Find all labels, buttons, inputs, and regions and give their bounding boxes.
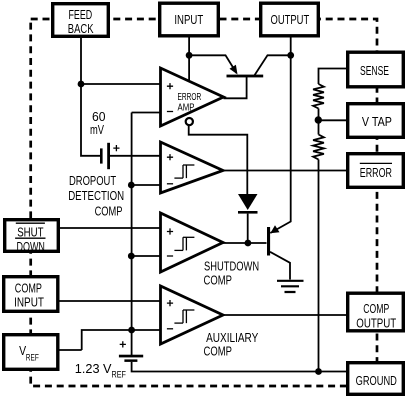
aux comp - marker (167, 328, 173, 330)
dropout comp hysteresis symbol (174, 177, 183, 179)
svg-text:COMP: COMP (15, 280, 42, 295)
wire: INPUT box down to error amp top (188, 38, 190, 82)
wire: aux comp - input from bus / vref (82, 330, 161, 350)
junction dot resistor bottom to ground rail (315, 368, 322, 375)
junction dot vref node (128, 327, 135, 334)
box SHUT DOWN (active low) (5, 220, 59, 254)
junction dot dropout - (128, 182, 135, 189)
resistor R2 (313, 135, 324, 160)
op-amp U1 error amp triangle (161, 68, 224, 126)
svg-text:AMP: AMP (178, 103, 195, 114)
wire: R2 bottom down to ground rail (318, 160, 320, 372)
battery B1 60mV plus bar (107, 143, 110, 169)
node A junction dot (feedback) (78, 81, 85, 88)
battery B1 60mV minus bar (100, 148, 103, 163)
wire: dropout comp output to ERROR box (223, 170, 346, 172)
error amp inverting output bubble (186, 118, 193, 125)
junction dot shutdown - (128, 253, 135, 260)
wire: bubble to diode (189, 125, 248, 194)
svg-text:GROUND: GROUND (356, 373, 397, 388)
Q2 collector wire to ground (270, 252, 290, 280)
box GROUND (348, 363, 404, 395)
wire: battery B1 to dropout comp + input (110, 155, 161, 157)
box ERROR (active low) (348, 154, 404, 188)
Q1 emitter wire from input node (189, 55, 236, 73)
comparator U3 shutdown comp triangle (161, 213, 224, 272)
shutdown comp hysteresis symbol (174, 249, 183, 251)
transistor Q1 PNP pass: base bar (227, 75, 264, 78)
wire: shutdown comp - input from bus (132, 255, 161, 257)
wire: R1 to tap node (318, 109, 320, 135)
diode D1 triangle (238, 194, 258, 210)
wire: error amp + input from node A (81, 83, 161, 85)
box FEED BACK (53, 4, 109, 37)
shutdown comp - marker (167, 255, 173, 257)
wire: aux comp output to COMP OUTPUT box (223, 314, 346, 316)
svg-text:OUTPUT: OUTPUT (356, 316, 396, 331)
transistor Q2 PNP: base bar (267, 227, 270, 256)
error amp + marker (167, 83, 173, 89)
svg-text:FEED: FEED (69, 7, 93, 22)
svg-text:SENSE: SENSE (360, 63, 389, 78)
svg-text:V TAP: V TAP (362, 114, 392, 129)
box SENSE (348, 52, 404, 87)
battery B2 1.23V minus bar (124, 359, 137, 362)
svg-text:SHUTDOWN: SHUTDOWN (204, 259, 259, 274)
svg-text:DOWN: DOWN (17, 239, 45, 254)
battery B2 plus marker (120, 341, 126, 347)
svg-text:REF: REF (112, 370, 127, 380)
Q1 collector wire to output node (254, 55, 291, 76)
svg-text:COMP: COMP (204, 343, 232, 358)
wire: FEED BACK down to node A (81, 38, 100, 156)
aux comp + marker (167, 300, 173, 306)
VREF bus vertical wire (131, 113, 133, 356)
svg-text:COMP: COMP (204, 273, 232, 288)
box COMP INPUT (4, 277, 58, 312)
wire: error amp - input from bus (132, 112, 161, 114)
svg-text:ERROR: ERROR (360, 165, 392, 180)
wire: VREF box right (59, 349, 82, 351)
svg-text:REF: REF (26, 352, 39, 362)
diode D1 cathode bar (238, 211, 258, 214)
box INPUT (160, 3, 219, 36)
box VREF (4, 335, 58, 370)
junction dot tap node (315, 116, 322, 123)
svg-text:DROPOUT: DROPOUT (69, 173, 116, 188)
svg-text:1.23 V: 1.23 V (75, 361, 112, 376)
svg-text:SHUT: SHUT (17, 225, 43, 240)
svg-text:COMP: COMP (363, 301, 389, 316)
error amp - marker (167, 111, 173, 113)
box COMP OUTPUT (348, 293, 404, 331)
wire: shutdown comp output to Q2 base (223, 242, 267, 244)
box V TAP (348, 104, 404, 138)
shutdown comp + marker (167, 228, 173, 234)
junction dot input node (186, 52, 193, 59)
junction dot diode/base (245, 240, 252, 247)
svg-text:ERROR: ERROR (178, 92, 202, 103)
Q2 emitter arrowhead (270, 225, 279, 233)
comparator U2 dropout detection triangle (161, 142, 224, 193)
Q1 emitter arrowhead (230, 65, 238, 75)
wire: COMP INPUT box to aux comp + (59, 300, 161, 302)
battery B1 plus marker (113, 145, 119, 151)
svg-text:DETECTION: DETECTION (68, 188, 124, 203)
svg-text:COMP: COMP (95, 204, 123, 219)
wire: SENSE to resistor divider top (319, 69, 347, 85)
svg-text:BACK: BACK (68, 21, 94, 36)
svg-text:INPUT: INPUT (14, 295, 44, 310)
comparator U4 auxiliary comp triangle (161, 286, 224, 344)
dashed IC boundary border (31, 19, 377, 386)
wire: tap node to V TAP box (318, 119, 346, 121)
battery B2 1.23V plus bar (119, 355, 143, 358)
dropout comp + marker (167, 154, 173, 160)
junction dot output node (287, 52, 294, 59)
svg-text:INPUT: INPUT (174, 12, 203, 27)
svg-text:mV: mV (90, 122, 104, 137)
resistor R1 (313, 84, 324, 109)
wire: error amp output to Q1 base (224, 77, 247, 98)
wire: battery B2 to ground rail (132, 362, 346, 372)
dropout comp - marker (167, 183, 173, 185)
aux comp hysteresis symbol (174, 322, 183, 324)
wire: SHUT DOWN box to shutdown comp + (60, 227, 161, 229)
wire: OUTPUT box down, long vertical to Q2 emitter (270, 38, 290, 234)
box OUTPUT (261, 3, 319, 36)
wire: dropout comp - input from bus (132, 184, 161, 186)
wire: diode to Q2 base node (247, 214, 249, 243)
svg-text:OUTPUT: OUTPUT (271, 12, 310, 27)
ground symbol (277, 281, 304, 292)
